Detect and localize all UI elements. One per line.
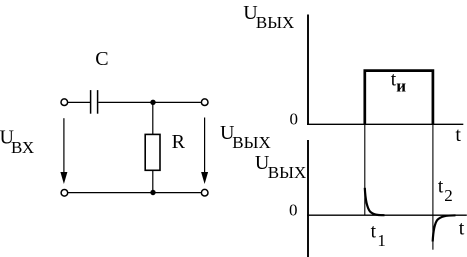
svg-text:1: 1 [377,231,386,250]
svg-text:ВХ: ВХ [11,138,34,157]
wire bottom [68,192,201,194]
pulse waveform (top graph) [365,71,433,125]
svg-text:0: 0 [290,110,299,129]
terminal bottom-left [61,190,68,197]
top graph y-axis [307,15,309,126]
svg-text:ВЫХ: ВЫХ [232,133,270,152]
wire resistor to bottom junction [152,170,154,192]
node junction bottom [150,190,155,195]
wire junction down to resistor [152,102,154,134]
svg-text:t: t [438,176,444,197]
terminal top-right [201,99,208,106]
bottom graph x-axis [307,214,467,216]
svg-text:ВЫХ: ВЫХ [268,163,306,182]
top graph x-axis [307,123,463,125]
arrow input voltage (left) [63,118,65,173]
svg-text:t: t [455,124,461,146]
svg-text:0: 0 [289,200,298,219]
wire capacitor to top-right terminal [98,101,200,103]
output spike at t1 (positive exponential decay) [365,188,385,215]
node t1 marker line [364,124,366,215]
svg-text:и: и [396,77,406,96]
node junction top [150,100,155,105]
svg-text:C: C [95,48,108,70]
resistor R [145,134,160,170]
svg-text:ВЫХ: ВЫХ [256,13,294,32]
output spike at t2 (negative exponential recovery) [433,215,456,241]
wire top-left to capacitor [68,101,90,103]
svg-text:R: R [172,131,186,153]
node t2 marker line [432,124,434,249]
arrow output voltage (right) [204,118,206,174]
svg-text:t: t [371,221,377,242]
svg-text:t: t [459,218,465,240]
svg-text:2: 2 [444,186,453,205]
capacitor C1 plates [90,90,92,114]
bottom graph y-axis [307,140,309,257]
terminal bottom-right [201,189,208,196]
terminal top-left [61,99,68,106]
